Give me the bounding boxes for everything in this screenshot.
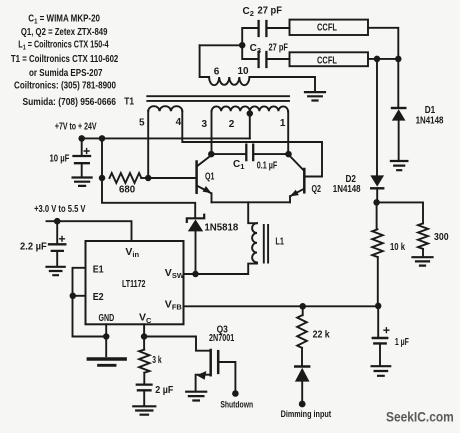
wire Q3 gate to shutdown [219, 362, 239, 397]
T1 pin labels [139, 117, 286, 130]
diode D1 1N4148 [392, 105, 444, 160]
svg-text:Vin: Vin [125, 246, 139, 259]
wire T1 pin 5 to Q1 base node [147, 111, 149, 178]
inductor L1 [248, 202, 284, 262]
svg-text:2N7001: 2N7001 [209, 333, 235, 344]
svg-text:GND: GND [99, 313, 115, 324]
svg-text:+7V to + 24V: +7V to + 24V [55, 122, 97, 133]
svg-text:CCFL: CCFL [317, 55, 337, 66]
wire U1 VSW to L1 [184, 264, 258, 274]
svg-text:E2: E2 [93, 292, 104, 303]
wire T1 pin 6 to C2/C3 node [200, 42, 246, 49]
wire T1 pin 4 to Q2 base loop [182, 111, 322, 176]
svg-text:680: 680 [119, 185, 136, 196]
node Q2 collector [285, 151, 292, 158]
svg-text:SeekIC.com: SeekIC.com [386, 409, 454, 424]
wire CCFL return to D1 [397, 59, 399, 107]
wire CCFL2 return [368, 56, 402, 63]
resistor R2 300 [418, 223, 449, 256]
resistor R3 10k [372, 202, 405, 306]
wire T1 pin 10 to ground [249, 77, 315, 91]
ground for U1 GND [88, 357, 125, 360]
svg-text:VFB: VFB [165, 298, 183, 311]
wire VC to Q3 drain [144, 337, 210, 351]
svg-text:E1: E1 [93, 264, 104, 275]
svg-text:1 µF: 1 µF [395, 337, 409, 348]
capacitor C7 2uF [137, 385, 174, 406]
svg-text:2: 2 [229, 119, 235, 130]
svg-text:Q1, Q2 = Zetex ZTX-849: Q1, Q2 = Zetex ZTX-849 [21, 27, 108, 38]
wire E2 junction to GND node [73, 296, 107, 337]
capacitor C3 27pF [242, 43, 289, 68]
node Q1 collector [208, 151, 215, 158]
wire CCFL1 return [368, 28, 398, 59]
svg-text:3: 3 [202, 119, 208, 130]
svg-text:1N4148: 1N4148 [333, 184, 361, 195]
node Dimming input [281, 409, 332, 420]
node +3.0V to 5.5V supply [34, 204, 131, 241]
svg-text:Dimming input: Dimming input [281, 409, 332, 420]
wire CCFL return to D2 [376, 59, 378, 175]
wire T1 pin 3 to Q1 collector [211, 111, 213, 154]
wire supply node to D3 cathode [102, 178, 195, 217]
svg-text:2.2 µF: 2.2 µF [20, 241, 47, 252]
svg-text:2 µF: 2 µF [155, 385, 173, 396]
svg-text:T1 = Coiltronics CTX 110-602: T1 = Coiltronics CTX 110-602 [11, 54, 119, 65]
diode D4 dimming input [295, 367, 310, 408]
ground for Q3 source [186, 392, 206, 401]
svg-text:4: 4 [176, 117, 182, 128]
CCFL lamp 1 [290, 20, 369, 35]
ground for C7 [133, 406, 155, 414]
svg-text:10 µF: 10 µF [50, 154, 70, 165]
capacitor C1 0.1uF [211, 145, 288, 172]
svg-text:Q2: Q2 [312, 184, 322, 195]
svg-text:T1: T1 [124, 97, 134, 108]
svg-text:300: 300 [434, 232, 449, 243]
svg-text:Shutdown: Shutdown [220, 400, 253, 411]
node T1 pin 2 center tap [247, 110, 254, 117]
wire D2 node to R2 300 [377, 202, 423, 223]
svg-text:1: 1 [280, 118, 286, 129]
resistor R4 22k [297, 306, 330, 365]
wire U1 GND pin [103, 324, 110, 356]
wire VFB feedback rail [184, 303, 382, 310]
ground for D1 [391, 161, 408, 170]
svg-text:Sumida: (708) 956-0666: Sumida: (708) 956-0666 [23, 97, 117, 108]
T1 label [124, 97, 134, 108]
svg-text:22 k: 22 k [313, 330, 330, 341]
wire T1 pin 1 to Q2 collector [287, 111, 289, 154]
resistor R5 3k [139, 337, 162, 384]
ground for C6 [372, 366, 391, 376]
resistor R1 680 [99, 138, 152, 195]
capacitor C6 1uF [373, 306, 409, 365]
ground for C5 [47, 267, 65, 275]
T1 primary winding pins 5-4 [148, 106, 182, 111]
svg-text:C2: C2 [243, 6, 254, 18]
svg-text:Coiltronics: (305) 781-8900: Coiltronics: (305) 781-8900 [14, 81, 116, 92]
capacitor C5 2.2uF [20, 221, 65, 266]
svg-text:L1 = Coiltronics CTX 150-4: L1 = Coiltronics CTX 150-4 [18, 40, 109, 52]
svg-text:+3.0 V to 5.5 V: +3.0 V to 5.5 V [34, 204, 86, 215]
T1 primary winding pins 3-1 [212, 106, 288, 111]
capacitor C2 27pF [242, 6, 289, 46]
diode D2 1N4148 [333, 174, 384, 206]
svg-text:1N5818: 1N5818 [204, 222, 238, 233]
parts list note [11, 14, 119, 109]
svg-text:CCFL: CCFL [317, 23, 337, 34]
svg-text:L1: L1 [275, 237, 284, 248]
svg-text:27 pF: 27 pF [258, 6, 283, 17]
svg-text:VC: VC [139, 312, 152, 325]
diode D3 1N5818 schottky [187, 215, 239, 274]
svg-text:27 pF: 27 pF [269, 43, 289, 54]
transistor Q1 [197, 155, 215, 202]
op-amp U1 LT1172 box [86, 241, 184, 324]
T1 secondary pin labels [214, 66, 249, 78]
transformer T1 core [147, 96, 289, 101]
svg-text:LT1172: LT1172 [122, 279, 146, 290]
node +7V to +24V supply [55, 122, 250, 142]
capacitor C4 10uF [50, 138, 91, 176]
wire T1 pin 6 riser [200, 45, 210, 77]
wire U1 VC pin [141, 324, 148, 339]
watermark SeekIC.com [386, 409, 454, 424]
svg-text:10: 10 [237, 66, 249, 77]
svg-text:C1: C1 [233, 159, 244, 171]
svg-text:VSW: VSW [165, 267, 185, 280]
svg-text:Q1: Q1 [205, 172, 215, 183]
transistor Q3 2N7001 [196, 324, 235, 390]
T1 secondary winding pins 6-10 [209, 77, 249, 85]
wire E1 to E2 junction [70, 268, 86, 299]
ground for R2 [413, 257, 433, 265]
svg-text:or Sumida EPS-207: or Sumida EPS-207 [29, 68, 103, 79]
transistor Q2 [289, 155, 322, 203]
CCFL lamp 2 [290, 52, 369, 66]
wire Q1/Q2 emitter rail [212, 201, 291, 203]
svg-text:C3: C3 [250, 43, 261, 55]
wire T1 pin 2 tap to +V rail [249, 114, 251, 139]
svg-text:6: 6 [214, 67, 220, 78]
svg-text:D1: D1 [425, 105, 436, 116]
svg-text:1N4148: 1N4148 [416, 116, 444, 127]
node D3 anode on VSW wire [192, 271, 199, 278]
node Shutdown [220, 400, 253, 411]
wire R1 to Q1 base [148, 177, 195, 179]
svg-text:10 k: 10 k [390, 242, 405, 253]
svg-text:5: 5 [139, 118, 145, 129]
U1 pin labels [93, 246, 185, 325]
svg-text:C1 = WIMA MKP-20: C1 = WIMA MKP-20 [28, 14, 100, 26]
ground for T1 pin 10 [305, 92, 325, 100]
svg-text:3 k: 3 k [152, 355, 162, 366]
svg-text:0.1 µF: 0.1 µF [257, 161, 278, 172]
ground for C4 [73, 178, 92, 186]
